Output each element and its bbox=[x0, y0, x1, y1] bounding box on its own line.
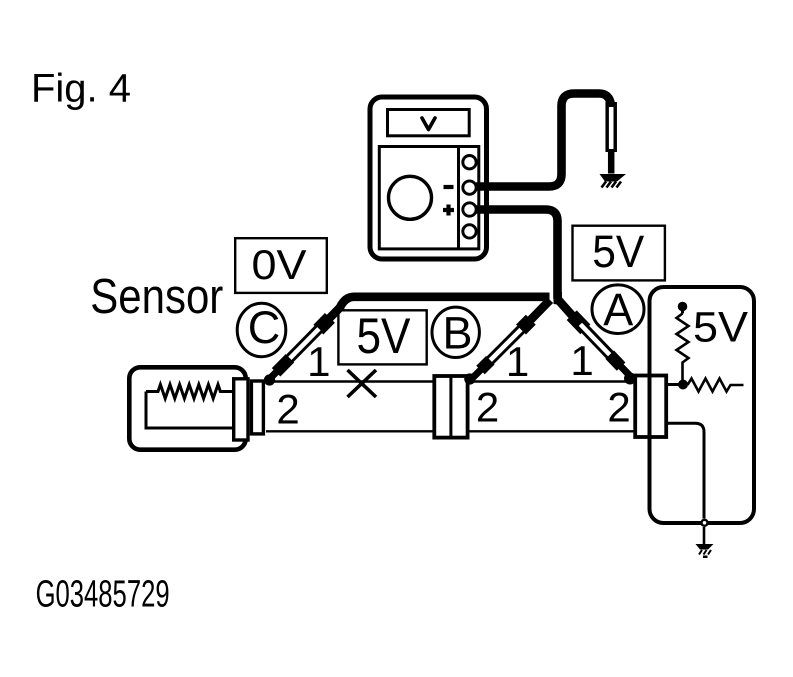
svg-text:5V: 5V bbox=[592, 226, 644, 277]
svg-text:B: B bbox=[442, 308, 472, 359]
label box 5V near A bbox=[573, 226, 665, 281]
ground probe shaft bbox=[605, 102, 617, 152]
ECU box bbox=[650, 287, 755, 523]
wire: connector A pin2 to case ground bbox=[666, 423, 704, 518]
multimeter V symbol bbox=[422, 118, 435, 130]
multimeter dial bbox=[389, 176, 432, 219]
svg-text:G03485729: G03485729 bbox=[36, 574, 170, 616]
svg-text:Fig. 4: Fig. 4 bbox=[31, 67, 131, 111]
wire 2 from C to B bbox=[266, 430, 434, 432]
multimeter panel divider bbox=[457, 147, 460, 249]
terminal circle 3 (plus) bbox=[463, 203, 476, 216]
svg-text:1: 1 bbox=[307, 338, 330, 385]
sensor resistor bbox=[146, 385, 233, 429]
case ground circle bbox=[702, 520, 708, 526]
svg-text:5V: 5V bbox=[693, 304, 748, 352]
svg-text:5V: 5V bbox=[357, 308, 412, 364]
junction node dot bbox=[678, 380, 688, 390]
connector B bbox=[434, 376, 467, 438]
node B bbox=[432, 307, 479, 358]
svg-text:2: 2 bbox=[476, 384, 499, 431]
svg-text:2: 2 bbox=[276, 386, 299, 433]
plus label bbox=[443, 205, 454, 216]
terminal circle 4 bbox=[463, 225, 476, 238]
probe lead to connector A bbox=[558, 299, 637, 385]
svg-text:1: 1 bbox=[570, 337, 593, 384]
probe lead at connector C bbox=[264, 306, 342, 386]
sensor body bbox=[129, 367, 245, 449]
5V supply dot bbox=[678, 302, 688, 314]
wire: connector A pin1 to junction bbox=[666, 383, 679, 386]
connector A bbox=[635, 376, 666, 438]
probe lead to connector B bbox=[464, 300, 550, 385]
ground symbol G1 (top right) bbox=[600, 174, 627, 188]
resistor R2 (horizontal zigzag) bbox=[688, 379, 744, 392]
terminal circle 1 bbox=[463, 156, 476, 169]
svg-text:A: A bbox=[603, 284, 633, 335]
wire 1 from C to B bbox=[266, 380, 434, 382]
minus label bbox=[444, 185, 454, 189]
node C bbox=[237, 302, 286, 357]
wire 1 from B to A bbox=[468, 380, 636, 382]
svg-text:C: C bbox=[248, 302, 281, 353]
svg-text:0V: 0V bbox=[252, 241, 307, 288]
fork junction fill bbox=[554, 292, 563, 305]
resistor R1 (5V pull-up, vertical zigzag) bbox=[677, 314, 689, 381]
wire: minus terminal to top-right ground probe bbox=[476, 94, 611, 187]
X break mark on wire 1 bbox=[348, 370, 377, 397]
wire: plus terminal down to probe fork bbox=[476, 210, 558, 300]
terminal circle 2 (minus) bbox=[463, 181, 476, 194]
svg-text:2: 2 bbox=[607, 384, 630, 431]
multimeter panel bbox=[379, 147, 479, 249]
multimeter U1 body bbox=[370, 97, 487, 259]
ground probe tip bbox=[608, 150, 615, 174]
multimeter display bbox=[388, 110, 470, 136]
label box 5V near B bbox=[338, 308, 426, 364]
svg-text:Sensor: Sensor bbox=[90, 270, 223, 324]
ground symbol G2 (bottom) bbox=[696, 544, 714, 558]
wire: probe bus from connector C up to fork bbox=[340, 297, 550, 308]
label box 0V bbox=[235, 238, 327, 293]
wire 2 from B to A bbox=[468, 430, 636, 432]
wire: case ground circle to ground symbol bbox=[703, 527, 706, 546]
node A bbox=[592, 284, 644, 335]
connector C bbox=[234, 379, 264, 440]
